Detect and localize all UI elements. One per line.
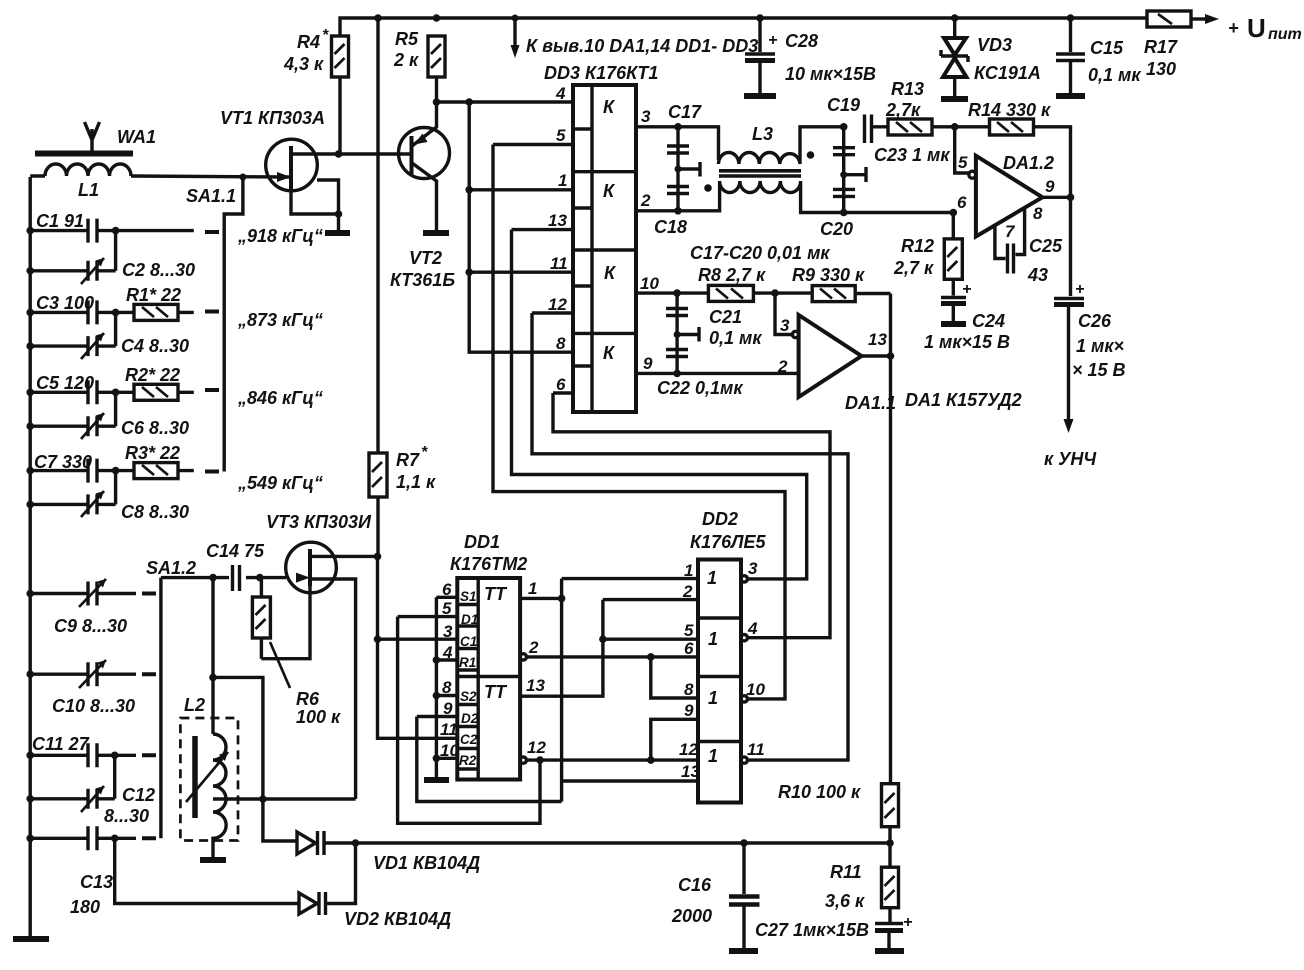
svg-text:13: 13	[681, 762, 700, 781]
svg-text:C4 8..30: C4 8..30	[121, 336, 189, 356]
svg-text:C11 27: C11 27	[32, 734, 90, 754]
svg-text:2: 2	[682, 582, 693, 601]
svg-text:„846 кГц“: „846 кГц“	[237, 388, 323, 408]
svg-text:2: 2	[528, 638, 539, 657]
svg-text:C1: C1	[460, 634, 477, 649]
svg-text:DA1.2: DA1.2	[1003, 153, 1054, 173]
svg-text:R11: R11	[830, 862, 862, 882]
svg-text:10: 10	[640, 274, 659, 293]
svg-text:VD3: VD3	[977, 35, 1012, 55]
svg-text:11: 11	[440, 720, 458, 739]
svg-text:C22 0,1мк: C22 0,1мк	[657, 378, 743, 398]
svg-text:1: 1	[708, 629, 718, 649]
svg-text:L3: L3	[752, 124, 773, 144]
svg-text:S2: S2	[460, 689, 477, 704]
svg-text:R10 100 к: R10 100 к	[778, 782, 861, 802]
svg-text:6: 6	[957, 193, 967, 212]
svg-text:5: 5	[958, 153, 968, 172]
svg-text:1 мк×: 1 мк×	[1076, 336, 1124, 356]
svg-text:R3* 22: R3* 22	[125, 443, 180, 463]
svg-text:11: 11	[747, 740, 765, 759]
svg-text:R14 330 к: R14 330 к	[968, 100, 1051, 120]
svg-text:2 к: 2 к	[393, 50, 419, 70]
svg-text:8: 8	[1033, 204, 1043, 223]
svg-text:+: +	[903, 914, 912, 931]
svg-text:1: 1	[707, 568, 717, 588]
svg-text:13: 13	[548, 211, 567, 230]
svg-text:5: 5	[556, 126, 566, 145]
svg-text:4: 4	[747, 619, 758, 638]
svg-text:+: +	[768, 32, 777, 49]
svg-text:6: 6	[556, 375, 566, 394]
svg-text:VD1 КВ104Д: VD1 КВ104Д	[373, 853, 480, 873]
svg-text:пит: пит	[1268, 26, 1302, 43]
svg-text:3: 3	[780, 316, 790, 335]
svg-text:D2: D2	[461, 711, 479, 726]
svg-text:10 мк×15В: 10 мк×15В	[785, 64, 876, 84]
svg-text:К176ТМ2: К176ТМ2	[450, 554, 527, 574]
svg-text:к УНЧ: к УНЧ	[1044, 449, 1097, 469]
svg-text:*: *	[421, 444, 428, 461]
svg-text:1: 1	[684, 561, 693, 580]
svg-text:10: 10	[746, 680, 765, 699]
svg-text:C19: C19	[827, 95, 860, 115]
svg-text:9: 9	[643, 354, 653, 373]
svg-text:9: 9	[1045, 177, 1055, 196]
svg-text:К176ЛЕ5: К176ЛЕ5	[690, 532, 766, 552]
svg-text:2,7к: 2,7к	[885, 100, 921, 120]
svg-text:8: 8	[684, 680, 694, 699]
svg-text:R13: R13	[891, 79, 924, 99]
svg-text:C2 8...30: C2 8...30	[122, 260, 195, 280]
svg-text:C26: C26	[1078, 311, 1112, 331]
svg-text:L2: L2	[184, 695, 205, 715]
svg-text:13: 13	[526, 676, 545, 695]
svg-text:C9 8...30: C9 8...30	[54, 616, 127, 636]
svg-text:К: К	[603, 181, 616, 201]
svg-text:C17: C17	[668, 102, 702, 122]
svg-text:C2: C2	[460, 732, 478, 747]
svg-text:2: 2	[777, 357, 788, 376]
svg-text:C28: C28	[785, 31, 818, 51]
svg-text:R17: R17	[1144, 37, 1178, 57]
svg-text:2,7 к: 2,7 к	[893, 258, 934, 278]
svg-text:0,1 мк: 0,1 мк	[709, 328, 762, 348]
svg-text:КС191А: КС191А	[974, 63, 1041, 83]
svg-text:6: 6	[684, 639, 694, 658]
svg-text:2: 2	[640, 191, 651, 210]
svg-text:2000: 2000	[671, 906, 712, 926]
svg-text:7: 7	[1005, 222, 1016, 241]
svg-text:*: *	[322, 27, 329, 44]
svg-text:C25: C25	[1029, 236, 1063, 256]
svg-text:C16: C16	[678, 875, 712, 895]
svg-text:43: 43	[1027, 265, 1048, 285]
svg-text:SA1.1: SA1.1	[186, 186, 236, 206]
svg-text:R8 2,7 к: R8 2,7 к	[698, 265, 766, 285]
svg-text:DD2: DD2	[702, 509, 738, 529]
svg-text:C27 1мк×15В: C27 1мк×15В	[755, 920, 869, 940]
svg-text:130: 130	[1146, 59, 1176, 79]
svg-text:R1: R1	[459, 655, 476, 670]
svg-text:4: 4	[555, 84, 566, 103]
svg-text:R2* 22: R2* 22	[125, 365, 180, 385]
svg-text:C14 75: C14 75	[206, 541, 265, 561]
svg-text:„873 кГц“: „873 кГц“	[237, 310, 323, 330]
svg-text:S1: S1	[460, 589, 477, 604]
svg-text:5: 5	[684, 621, 694, 640]
svg-text:C20: C20	[820, 219, 853, 239]
svg-text:1,1 к: 1,1 к	[396, 472, 436, 492]
svg-text:C6 8..30: C6 8..30	[121, 418, 189, 438]
svg-text:9: 9	[684, 701, 694, 720]
svg-text:100 к: 100 к	[296, 707, 341, 727]
svg-text:DA1 К157УД2: DA1 К157УД2	[905, 390, 1022, 410]
svg-text:R2: R2	[459, 753, 477, 768]
svg-text:DA1.1: DA1.1	[845, 393, 896, 413]
svg-text:0,1 мк: 0,1 мк	[1088, 65, 1141, 85]
svg-text:R12: R12	[901, 236, 934, 256]
svg-text:VT3 КП303И: VT3 КП303И	[266, 512, 372, 532]
svg-text:„549 кГц“: „549 кГц“	[237, 473, 323, 493]
svg-text:VT1 КП303А: VT1 КП303А	[220, 108, 325, 128]
svg-text:К: К	[603, 97, 616, 117]
svg-text:ТТ: ТТ	[484, 584, 508, 604]
svg-text:WA1: WA1	[117, 127, 156, 147]
svg-text:3: 3	[641, 107, 651, 126]
svg-text:D1: D1	[461, 612, 478, 627]
svg-text:R6: R6	[296, 689, 320, 709]
svg-text:C10 8...30: C10 8...30	[52, 696, 135, 716]
svg-text:1: 1	[708, 746, 718, 766]
svg-text:× 15 В: × 15 В	[1072, 360, 1126, 380]
svg-text:C13: C13	[80, 872, 113, 892]
svg-text:„918 кГц“: „918 кГц“	[237, 226, 323, 246]
svg-text:C15: C15	[1090, 38, 1124, 58]
svg-text:+: +	[1075, 281, 1084, 298]
svg-text:К: К	[604, 263, 617, 283]
svg-text:C7 330: C7 330	[34, 452, 92, 472]
svg-text:C12: C12	[122, 785, 155, 805]
svg-text:C8 8..30: C8 8..30	[121, 502, 189, 522]
svg-text:+: +	[962, 281, 971, 298]
svg-text:8...30: 8...30	[104, 806, 149, 826]
svg-text:C5 120: C5 120	[36, 373, 94, 393]
svg-text:SA1.2: SA1.2	[146, 558, 196, 578]
svg-text:12: 12	[548, 295, 567, 314]
svg-text:R9 330 к: R9 330 к	[792, 265, 865, 285]
svg-text:R4: R4	[297, 32, 320, 52]
svg-text:180: 180	[70, 897, 100, 917]
svg-text:C23 1 мк: C23 1 мк	[874, 145, 950, 165]
svg-text:C21: C21	[709, 307, 742, 327]
svg-text:C3 100: C3 100	[36, 293, 94, 313]
svg-text:11: 11	[550, 254, 568, 273]
svg-text:12: 12	[527, 738, 546, 757]
svg-text:К выв.10 DA1,14 DD1- DD3: К выв.10 DA1,14 DD1- DD3	[526, 36, 758, 56]
svg-text:1: 1	[708, 688, 718, 708]
svg-text:C1 91: C1 91	[36, 211, 84, 231]
svg-text:13: 13	[868, 330, 887, 349]
svg-text:U: U	[1247, 13, 1266, 43]
svg-text:К: К	[603, 343, 616, 363]
svg-text:R7: R7	[396, 450, 420, 470]
svg-text:R5: R5	[395, 29, 419, 49]
svg-text:4,3 к: 4,3 к	[283, 54, 324, 74]
svg-text:КТ361Б: КТ361Б	[390, 270, 455, 290]
svg-text:8: 8	[556, 334, 566, 353]
svg-text:R1* 22: R1* 22	[126, 285, 181, 305]
svg-text:VD2 КВ104Д: VD2 КВ104Д	[344, 909, 451, 929]
svg-text:3,6 к: 3,6 к	[825, 891, 865, 911]
svg-text:L1: L1	[78, 180, 99, 200]
svg-text:DD1: DD1	[464, 532, 500, 552]
svg-text:1 мк×15 В: 1 мк×15 В	[924, 332, 1010, 352]
svg-text:C24: C24	[972, 311, 1005, 331]
svg-text:VT2: VT2	[409, 248, 442, 268]
svg-text:1: 1	[528, 579, 537, 598]
svg-text:3: 3	[748, 559, 758, 578]
svg-text:C18: C18	[654, 217, 687, 237]
svg-text:DD3 К176КТ1: DD3 К176КТ1	[544, 63, 658, 83]
svg-text:ТТ: ТТ	[484, 682, 508, 702]
svg-text:+: +	[1228, 18, 1239, 38]
svg-text:1: 1	[558, 171, 567, 190]
svg-text:C17-C20 0,01 мк: C17-C20 0,01 мк	[690, 243, 830, 263]
svg-text:12: 12	[679, 740, 698, 759]
